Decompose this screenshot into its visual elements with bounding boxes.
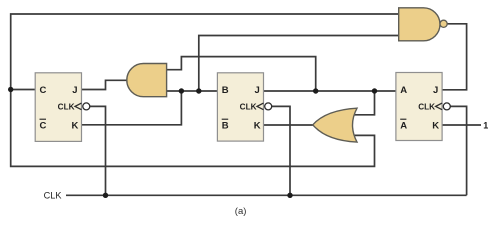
svg-text:K: K [72,121,79,132]
svg-text:B: B [222,85,229,96]
svg-text:C: C [40,85,47,96]
svg-text:J: J [433,85,438,96]
svg-text:(a): (a) [235,206,247,217]
svg-text:CLK: CLK [58,102,75,111]
svg-text:CLK: CLK [240,102,257,111]
svg-text:J: J [255,85,260,96]
svg-text:C: C [40,121,47,132]
svg-text:CLK: CLK [418,102,435,111]
svg-text:CLK: CLK [44,191,63,201]
svg-text:A: A [400,121,407,132]
svg-text:1: 1 [483,120,488,130]
svg-text:K: K [432,121,439,132]
svg-text:A: A [400,85,407,96]
svg-text:K: K [254,121,261,132]
svg-text:J: J [72,85,77,96]
svg-text:B: B [222,121,229,132]
